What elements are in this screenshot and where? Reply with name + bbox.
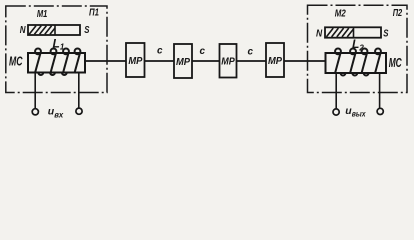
- svg-text:uвх: uвх: [48, 106, 64, 120]
- coil L1 core rectangle: [28, 53, 85, 73]
- svg-text:МР: МР: [268, 56, 282, 67]
- svg-text:S: S: [84, 25, 89, 36]
- wire coupler MP1-MP2: [144, 60, 174, 62]
- wire rod from left transducer core to MP1: [85, 60, 126, 62]
- wire rod from MP4 to right transducer core: [283, 60, 326, 62]
- resonator block MP4: [266, 43, 284, 77]
- svg-text:П2: П2: [393, 8, 403, 19]
- resonator block MP1: [126, 43, 145, 77]
- svg-text:М1: М1: [37, 9, 48, 20]
- coil L2 winding turns: [335, 49, 381, 76]
- coil L1 winding turns: [35, 49, 81, 76]
- output terminal circle 2: [377, 108, 383, 114]
- svg-text:МР: МР: [221, 56, 235, 67]
- wire coupler MP2-MP3: [191, 60, 220, 62]
- enclosure dash-dot box of transducer П2: [308, 5, 408, 92]
- magnet M1 hatched N half: [29, 25, 55, 34]
- svg-text:uвых: uвых: [345, 105, 366, 119]
- resonator block MP2: [174, 44, 192, 78]
- svg-text:N: N: [316, 28, 323, 39]
- svg-text:МР: МР: [176, 57, 190, 68]
- coil L2 core rectangle: [326, 53, 387, 73]
- svg-text:МС: МС: [389, 55, 402, 70]
- svg-text:М2: М2: [335, 9, 346, 20]
- wire lead to left input terminal 1: [34, 73, 36, 109]
- magnet M2 bar: [325, 27, 381, 37]
- enclosure dash-dot box of transducer П1: [6, 6, 107, 93]
- output terminal circle 1: [333, 109, 339, 115]
- magnet M1 bar: [28, 25, 80, 35]
- wire lead to output terminal 1: [335, 73, 337, 109]
- wire lead to left input terminal 2: [78, 73, 80, 109]
- input terminal circle 2: [76, 108, 82, 114]
- svg-text:с: с: [157, 46, 163, 57]
- svg-text:МС: МС: [9, 54, 23, 69]
- svg-text:с: с: [248, 47, 254, 58]
- wire coupler MP3-MP4: [235, 60, 266, 62]
- svg-text:N: N: [20, 25, 26, 36]
- resonator block MP3: [220, 44, 237, 78]
- svg-text:S: S: [383, 28, 388, 39]
- magnet M2 hatched N half: [326, 28, 353, 38]
- svg-text:МР: МР: [128, 56, 142, 67]
- input terminal circle 1: [32, 109, 38, 115]
- svg-text:с: с: [200, 46, 206, 57]
- svg-text:П1: П1: [89, 8, 99, 19]
- wire lead to output terminal 2: [379, 73, 381, 108]
